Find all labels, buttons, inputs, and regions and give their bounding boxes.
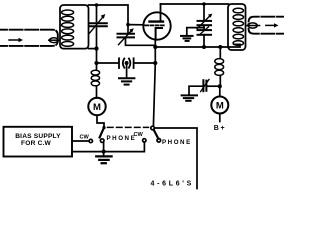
switch S1 blade — [100, 128, 104, 138]
node: ground bus junction — [102, 150, 106, 154]
ground (keying) — [96, 156, 111, 163]
wire: M1 to switch common — [97, 115, 104, 126]
wire: plate top bus to L2 — [161, 3, 229, 5]
meter M1 (grid current) — [88, 98, 105, 115]
node: gang cap bottom junction — [202, 45, 206, 49]
coil L1 form outline (tank, left) — [60, 5, 89, 49]
wire: C1 top lead — [96, 5, 98, 22]
wire: rotor ground lead — [187, 28, 204, 35]
wire: C2 bottom to cathode line — [126, 37, 156, 45]
wire: bypass cap lead — [208, 85, 220, 87]
coil L2 turns — [233, 8, 243, 45]
inductor RFC1 (grid side choke) — [91, 63, 99, 98]
tube V1 envelope — [143, 12, 170, 39]
node: cathode-bus junction — [153, 45, 157, 49]
wire: bypass to ground — [189, 86, 202, 94]
wire: drop to keying line — [96, 49, 98, 63]
contact PHONE2 — [157, 139, 161, 143]
wire: cathode / tank bottom bus — [155, 44, 240, 47]
ground (feedthrough) — [119, 78, 134, 84]
wire: keying line left segment — [97, 62, 119, 64]
node: tank cap tap on plate bus — [202, 2, 206, 6]
tube V1 grid (dashed) — [145, 24, 164, 26]
arrow (feed direction, left line) — [9, 38, 23, 42]
node: S1 pivot — [102, 126, 105, 129]
insulator/connector oval left — [49, 38, 60, 43]
wire: cathode drop to switch 2 — [153, 40, 155, 126]
contact CW2 — [143, 139, 146, 142]
wire: feedthrough ground drop — [126, 63, 128, 78]
wire: keying line right segment — [134, 62, 155, 64]
node: RFC2 tap — [218, 45, 222, 49]
meter M2 (plate current) — [211, 97, 228, 114]
contact PHONE1 — [100, 139, 104, 143]
tube V1 cathode — [156, 28, 162, 40]
contact CW1 — [89, 139, 92, 142]
ground (plate bypass) — [182, 95, 197, 100]
switch S2 blade — [154, 130, 159, 139]
wire: PHONE1 to ground — [103, 142, 105, 155]
svg-text:CW: CW — [80, 134, 90, 140]
inductor RFC2 (plate choke) — [215, 47, 224, 86]
capacitor C5a (feedthrough, left half) — [119, 58, 124, 68]
capacitor C4 (split-stator section B) — [198, 27, 212, 35]
svg-text:B+: B+ — [214, 125, 226, 132]
tube V1 plate — [150, 4, 164, 22]
svg-text:PHONE: PHONE — [107, 135, 137, 142]
wire: M2 top lead — [219, 86, 221, 96]
insulator/connector oval right — [247, 23, 260, 28]
svg-text:BIAS SUPPLY: BIAS SUPPLY — [15, 133, 61, 140]
wire: C1 bottom lead — [96, 28, 98, 49]
node: keying line tee — [94, 61, 98, 65]
wire: L1 top to grid corner — [89, 5, 129, 25]
wire: gang cap bottom lead — [203, 35, 205, 47]
svg-text:M: M — [93, 102, 101, 113]
wire: S2 common to key jack — [154, 128, 197, 189]
wire: gang cap top lead — [203, 4, 205, 20]
wire: rotor mid stub — [203, 25, 205, 30]
switch S2 pivot ring — [151, 126, 155, 130]
capacitor C2 (variable, grid coupling) — [118, 25, 135, 45]
bias supply box — [4, 127, 73, 157]
capacitor C6 (plate bypass) — [201, 79, 209, 91]
wire: M2 to B+ — [219, 114, 221, 122]
feed line right (to antenna) — [249, 17, 290, 34]
node: C1 top tap — [95, 3, 99, 7]
gang linkage (dashed) — [108, 126, 149, 128]
arrow (feed direction, right line) — [266, 23, 279, 27]
node: tank bottom junction — [94, 47, 98, 51]
wire: grid lead to tube — [128, 24, 144, 26]
feed line left (to receiver/antenna) — [0, 30, 58, 46]
coil L1 turns — [62, 10, 74, 46]
node: keying line to cathode — [153, 61, 157, 65]
node: bypass tap — [218, 84, 222, 88]
capacitor C5b (feedthrough, right half) — [129, 58, 134, 68]
svg-text:M: M — [216, 101, 224, 112]
capacitor C3 (split-stator section A, variable) — [197, 14, 212, 29]
ground (tank rotor) — [181, 36, 193, 41]
coil L2 form outline (tank, right) — [228, 4, 246, 50]
svg-text:4-6L6'S: 4-6L6'S — [151, 180, 195, 187]
node: feedthrough center — [125, 61, 129, 65]
svg-text:PHONE: PHONE — [162, 139, 192, 146]
wire: bias bus to CW contact 2 — [72, 142, 144, 152]
capacitor C1 (variable, grid tank) — [90, 14, 107, 33]
node: grid junction — [126, 23, 130, 27]
wire: tank bottom extension — [89, 48, 97, 50]
wire: bias to CW contact 1 — [72, 140, 89, 142]
svg-text:FOR C.W: FOR C.W — [21, 140, 52, 147]
